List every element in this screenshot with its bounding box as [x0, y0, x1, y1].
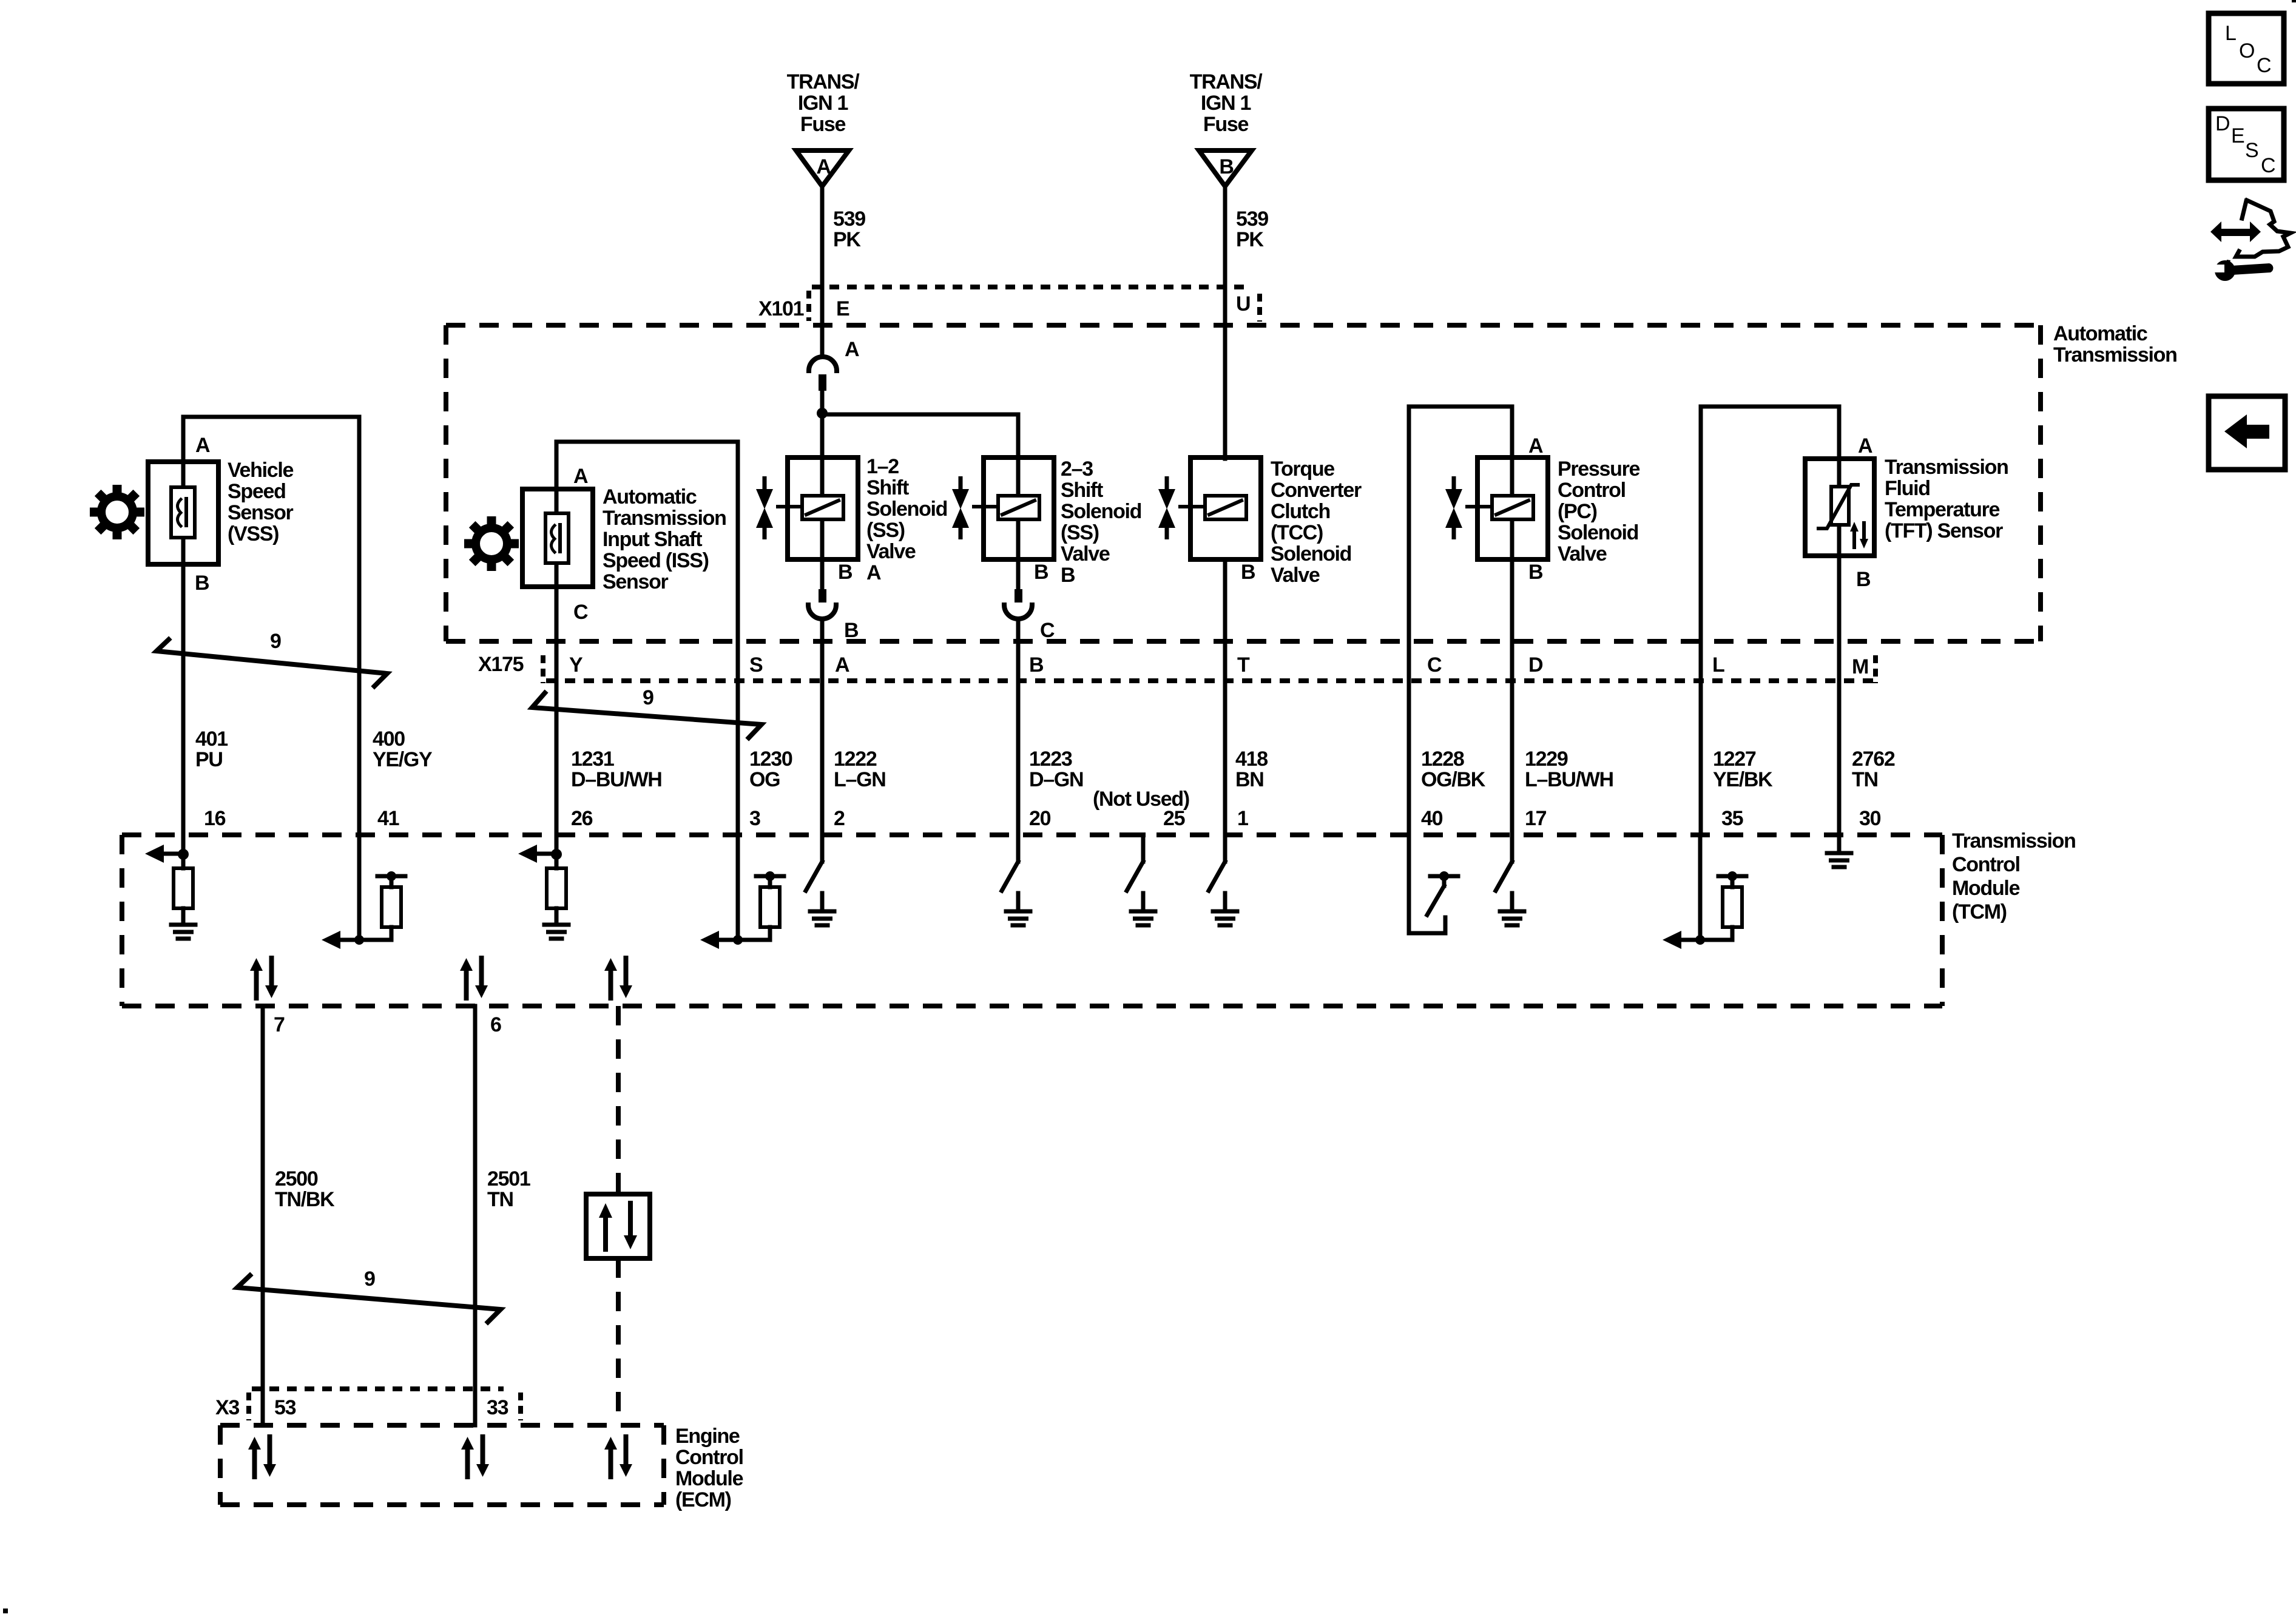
svg-text:D: D	[1528, 653, 1543, 677]
svg-text:Solenoid: Solenoid	[1271, 542, 1351, 565]
wire label 1228 OG/BK	[1421, 748, 1486, 791]
svg-text:Valve: Valve	[1558, 542, 1607, 565]
fuse symbol B (triangle)	[1199, 150, 1252, 186]
TCM pin 20 driver (switch to ground)	[1002, 835, 1030, 925]
svg-text:1227: 1227	[1713, 748, 1756, 771]
svg-text:2501: 2501	[487, 1167, 530, 1190]
TCM pin 25 stub (not used, switch to ground)	[1122, 835, 1155, 925]
svg-text:418: 418	[1235, 748, 1268, 771]
svg-text:A: A	[816, 155, 831, 178]
Engine Control Module (ECM) dashed box	[220, 1425, 664, 1505]
Transmission Fluid Temperature (TFT) Sensor label	[1885, 456, 2008, 542]
svg-text:B: B	[195, 572, 209, 595]
TCM pin 30 ground	[1827, 835, 1851, 867]
TFT sensor body	[1805, 459, 1874, 556]
svg-text:16: 16	[204, 807, 226, 830]
svg-text:TRANS/: TRANS/	[787, 70, 860, 93]
solenoid Torque Converter Clutch (TCC) Solenoid Valve	[1180, 457, 1261, 559]
svg-text:Module: Module	[675, 1467, 743, 1490]
svg-text:S: S	[749, 653, 763, 677]
connector X3 label	[215, 1393, 249, 1420]
svg-text:C: C	[2257, 54, 2271, 77]
svg-text:3: 3	[749, 807, 760, 830]
svg-text:1: 1	[1237, 807, 1248, 830]
harness crossing mark 9 (2500/2501 wires)	[237, 1268, 501, 1322]
svg-text:A: A	[1528, 434, 1543, 457]
TCM pin 35 input circuit (arrow, pull-up resistor)	[1663, 835, 1746, 949]
svg-text:Speed (ISS): Speed (ISS)	[603, 549, 709, 572]
svg-text:PK: PK	[833, 228, 861, 251]
Vehicle Speed Sensor wires and top bracket	[183, 417, 359, 940]
svg-text:2500: 2500	[275, 1167, 318, 1190]
svg-text:X101: X101	[758, 297, 804, 320]
svg-text:Sensor: Sensor	[228, 501, 294, 524]
svg-text:Vehicle: Vehicle	[228, 459, 293, 482]
svg-text:Valve: Valve	[1271, 564, 1320, 587]
wire 539 PK to 1-2 shift solenoid	[820, 390, 825, 589]
svg-text:1–2: 1–2	[866, 455, 899, 478]
svg-text:D–GN: D–GN	[1029, 768, 1083, 791]
ISS sensor body	[522, 489, 593, 587]
TCM bidirectional signal arrows 1	[250, 958, 278, 998]
svg-text:C: C	[2261, 154, 2275, 177]
valve symbol (TCC solenoid)	[1158, 476, 1175, 539]
svg-text:TN: TN	[487, 1188, 513, 1211]
TFT thermistor element	[1818, 485, 1858, 528]
fuse TRANS/IGN 1 Fuse A label	[787, 70, 860, 136]
svg-text:(ECM): (ECM)	[675, 1488, 731, 1511]
svg-text:2–3: 2–3	[1061, 457, 1093, 481]
TCM pin 3 input circuit (arrow, pull-up resistor)	[700, 835, 784, 949]
wire label 1229 L-BU/WH	[1525, 748, 1613, 791]
svg-text:1231: 1231	[571, 748, 614, 771]
TFT bidirectional arrows	[1850, 522, 1868, 549]
svg-text:(TCM): (TCM)	[1952, 900, 2007, 923]
LOC reference box	[2209, 13, 2284, 84]
in-line connector (plug and socket) on 1223	[1004, 589, 1032, 619]
svg-text:1222: 1222	[834, 748, 877, 771]
connector X101 label	[758, 291, 809, 321]
svg-text:L–BU/WH: L–BU/WH	[1525, 768, 1613, 791]
svg-text:Transmission: Transmission	[2053, 343, 2177, 366]
DESC reference box	[2209, 109, 2284, 180]
svg-text:Input Shaft: Input Shaft	[603, 528, 702, 551]
Automatic Transmission Input Shaft Speed (ISS) Sensor label	[603, 485, 726, 593]
wire 1223 down to TCM	[1016, 619, 1021, 835]
svg-text:Solenoid: Solenoid	[866, 498, 947, 521]
svg-text:A: A	[835, 653, 849, 677]
pin M (X175)	[1852, 655, 1876, 683]
2-3 Shift Solenoid (SS) Valve B label	[1061, 457, 1141, 587]
wire label 1231 D-BU/WH	[571, 748, 662, 791]
Pressure Control solenoid wires and top bracket	[1409, 407, 1512, 835]
svg-text:7: 7	[274, 1013, 285, 1036]
svg-text:Automatic: Automatic	[603, 485, 697, 508]
svg-text:U: U	[1236, 292, 1250, 316]
svg-text:C: C	[573, 601, 588, 624]
svg-text:20: 20	[1029, 807, 1051, 830]
svg-text:O: O	[2239, 39, 2254, 62]
connector X3 line	[252, 1386, 504, 1391]
svg-text:(TFT) Sensor: (TFT) Sensor	[1885, 519, 2003, 542]
svg-text:1230: 1230	[749, 748, 792, 771]
TCM pin 26 input circuit (arrow, resistor, ground)	[518, 835, 569, 939]
Automatic Transmission dashed box	[446, 325, 2041, 641]
ECM bidirectional signal arrows 1	[248, 1437, 276, 1477]
svg-text:26: 26	[571, 807, 593, 830]
svg-text:A: A	[866, 561, 881, 584]
svg-text:400: 400	[373, 727, 405, 751]
svg-text:S: S	[2245, 139, 2258, 162]
svg-text:33: 33	[487, 1396, 508, 1419]
svg-text:2: 2	[834, 807, 845, 830]
VSS sensor body	[148, 462, 218, 564]
svg-text:A: A	[845, 338, 859, 361]
valve symbol (1-2 shift solenoid)	[756, 476, 773, 539]
svg-text:IGN 1: IGN 1	[798, 92, 848, 115]
wire label 418 BN	[1235, 748, 1268, 791]
solenoid 2-3 Shift Solenoid (SS) Valve B	[974, 457, 1054, 559]
svg-text:B: B	[844, 619, 859, 642]
svg-text:Solenoid: Solenoid	[1061, 500, 1141, 523]
svg-text:TN/BK: TN/BK	[275, 1188, 335, 1211]
solenoid 1-2 Shift Solenoid (SS) Valve A	[778, 457, 858, 559]
svg-text:A: A	[573, 465, 588, 488]
pin U (X101)	[1236, 292, 1260, 322]
fuse symbol A (triangle)	[796, 150, 849, 186]
svg-text:B: B	[1241, 561, 1255, 584]
svg-text:Speed: Speed	[228, 480, 286, 503]
svg-text:Y: Y	[569, 653, 583, 677]
svg-text:C: C	[1040, 619, 1055, 642]
svg-text:B: B	[1034, 561, 1048, 584]
harness crossing mark 9 (VSS wires)	[157, 630, 387, 686]
gear icon (VSS)	[90, 485, 144, 539]
TCM pin 1 driver (switch to ground)	[1209, 835, 1237, 925]
svg-text:D: D	[2215, 112, 2229, 135]
connector X175 line	[546, 678, 1880, 683]
svg-text:B: B	[1528, 561, 1543, 584]
VSS sensor element	[171, 487, 195, 538]
connector repair icon (arrow into harness with wrench)	[2209, 200, 2291, 281]
page mark (top right)	[2292, 0, 2296, 2]
svg-text:L: L	[2225, 22, 2236, 45]
fuse TRANS/IGN 1 Fuse B label	[1190, 70, 1263, 136]
Pressure Control (PC) Solenoid Valve label	[1558, 457, 1640, 565]
TCM pin 16 input circuit (arrow, resistor, ground)	[145, 835, 195, 939]
TCM bidirectional signal arrows 2	[460, 958, 488, 998]
svg-text:53: 53	[274, 1396, 296, 1419]
svg-text:Transmission: Transmission	[1952, 829, 2076, 852]
svg-text:Solenoid: Solenoid	[1558, 521, 1638, 544]
TCM pin 17 driver (switch to ground)	[1496, 835, 1524, 925]
svg-text:6: 6	[490, 1013, 501, 1036]
ISS sensor element	[545, 513, 569, 563]
wire label 1230 OG	[749, 748, 792, 791]
svg-text:(PC): (PC)	[1558, 500, 1597, 523]
svg-text:Module: Module	[1952, 877, 2020, 900]
svg-text:YE/BK: YE/BK	[1713, 768, 1773, 791]
solenoid Pressure Control (PC) Solenoid Valve	[1467, 457, 1548, 559]
svg-text:Fuse: Fuse	[1203, 113, 1249, 136]
Transmission Control Module (TCM) dashed box	[122, 835, 1942, 1006]
svg-text:IGN 1: IGN 1	[1201, 92, 1251, 115]
svg-text:Temperature: Temperature	[1885, 498, 2000, 521]
svg-text:D–BU/WH: D–BU/WH	[571, 768, 662, 791]
wire label 1222 L-GN	[834, 748, 885, 791]
svg-text:9: 9	[270, 630, 281, 653]
in-line connector (socket and plug) on 539 PK	[809, 357, 837, 391]
TCM pin 41 input circuit (arrow, pull-up resistor)	[322, 835, 405, 949]
svg-text:Transmission: Transmission	[1885, 456, 2008, 479]
wire label 400 YE/GY	[373, 727, 433, 771]
svg-text:539: 539	[833, 208, 865, 231]
svg-text:TRANS/: TRANS/	[1190, 70, 1263, 93]
svg-text:B: B	[1061, 564, 1075, 587]
svg-text:(VSS): (VSS)	[228, 522, 279, 545]
wire branch 539 PK to 2-3 shift solenoid	[822, 414, 1018, 589]
valve symbol (2-3 shift solenoid)	[952, 476, 969, 539]
svg-text:Clutch: Clutch	[1271, 500, 1330, 523]
svg-text:2762: 2762	[1852, 748, 1895, 771]
svg-text:YE/GY: YE/GY	[373, 748, 433, 771]
svg-text:Fluid: Fluid	[1885, 477, 1930, 500]
svg-text:(SS): (SS)	[1061, 521, 1099, 544]
gear icon (ISS)	[464, 516, 519, 571]
svg-text:17: 17	[1525, 807, 1547, 830]
svg-text:Transmission: Transmission	[603, 507, 726, 530]
Automatic Transmission label	[2053, 322, 2177, 366]
svg-text:L: L	[1712, 653, 1724, 677]
wire label 539 PK (A)	[833, 208, 865, 251]
svg-text:Engine: Engine	[675, 1425, 740, 1448]
svg-text:Automatic: Automatic	[2053, 322, 2147, 345]
connector X101 line	[812, 285, 1251, 289]
page mark dot (bottom left)	[3, 1609, 8, 1613]
svg-text:C: C	[1427, 653, 1442, 677]
svg-text:B: B	[1856, 568, 1871, 591]
svg-text:Control: Control	[1558, 479, 1626, 502]
junction (splice) on 539 PK	[817, 408, 828, 419]
wire 1222 down to TCM	[820, 619, 825, 835]
harness crossing mark 9 (ISS wires)	[532, 686, 761, 738]
svg-text:PU: PU	[195, 748, 223, 771]
svg-text:X175: X175	[478, 653, 524, 676]
svg-text:OG/BK: OG/BK	[1421, 768, 1486, 791]
connector X175 label	[478, 653, 543, 683]
svg-text:1223: 1223	[1029, 748, 1072, 771]
back navigation arrow box	[2209, 396, 2285, 470]
1-2 Shift Solenoid (SS) Valve A label	[866, 455, 947, 584]
bidirectional link symbol box	[586, 1194, 650, 1258]
svg-text:1228: 1228	[1421, 748, 1464, 771]
svg-text:Control: Control	[675, 1446, 743, 1469]
wire 2501 TN (TCM pin 6 to ECM)	[473, 1006, 478, 1425]
Vehicle Speed Sensor (VSS) label	[228, 459, 294, 545]
svg-text:A: A	[1858, 434, 1872, 457]
Engine Control Module (ECM) label	[675, 1425, 743, 1511]
wire label 1227 YE/BK	[1713, 748, 1773, 791]
svg-text:B: B	[1029, 653, 1044, 677]
svg-text:Control: Control	[1952, 853, 2020, 876]
wire 2500 TN/BK (TCM pin 7 to ECM)	[261, 1006, 265, 1425]
svg-text:40: 40	[1421, 807, 1443, 830]
wire label 2501 TN	[487, 1167, 530, 1211]
svg-text:M: M	[1852, 655, 1868, 678]
ECM bidirectional signal arrows 2	[461, 1437, 489, 1477]
svg-text:Shift: Shift	[1061, 479, 1103, 502]
svg-text:A: A	[195, 434, 210, 457]
svg-text:E: E	[2231, 124, 2244, 147]
svg-text:L–GN: L–GN	[834, 768, 885, 791]
svg-text:Shift: Shift	[866, 476, 909, 499]
svg-text:Valve: Valve	[866, 540, 916, 563]
ECM bidirectional signal arrows 3	[604, 1437, 632, 1477]
svg-text:Fuse: Fuse	[800, 113, 846, 136]
wire label 401 PU	[195, 727, 228, 771]
wire label 1223 D-GN	[1029, 748, 1083, 791]
svg-text:TN: TN	[1852, 768, 1878, 791]
svg-text:1229: 1229	[1525, 748, 1568, 771]
ISS sensor wires and top bracket	[556, 442, 738, 940]
TCM bidirectional signal arrows 3	[604, 958, 632, 998]
svg-text:OG: OG	[749, 768, 780, 791]
wire label 539 PK (B)	[1236, 208, 1268, 251]
svg-text:Torque: Torque	[1271, 457, 1334, 481]
svg-text:30: 30	[1859, 807, 1881, 830]
svg-text:Pressure: Pressure	[1558, 457, 1640, 481]
svg-text:PK: PK	[1236, 228, 1264, 251]
Torque Converter Clutch (TCC) Solenoid Valve label	[1271, 457, 1362, 587]
pin 33 (ECM)	[487, 1393, 521, 1420]
svg-text:539: 539	[1236, 208, 1268, 231]
TCM pin 2 driver (switch to ground)	[806, 835, 834, 925]
TFT sensor wires and top bracket	[1701, 407, 1839, 835]
svg-text:Converter: Converter	[1271, 479, 1362, 502]
svg-text:T: T	[1237, 653, 1250, 677]
svg-text:(SS): (SS)	[866, 519, 905, 542]
in-line connector (plug and socket) on 1222	[808, 589, 836, 619]
svg-text:35: 35	[1721, 807, 1743, 830]
svg-text:B: B	[838, 561, 853, 584]
svg-text:Valve: Valve	[1061, 542, 1110, 565]
svg-text:B: B	[1219, 155, 1234, 178]
svg-text:E: E	[836, 297, 849, 320]
valve symbol (PC solenoid)	[1445, 476, 1462, 539]
svg-text:25: 25	[1163, 807, 1185, 830]
Transmission Control Module (TCM) label	[1952, 829, 2076, 923]
wire label 2500 TN/BK	[275, 1167, 335, 1211]
wire 539 PK from fuse B down to TCC solenoid	[1223, 189, 1227, 459]
TCM pin 40 driver (switch contact)	[1409, 835, 1458, 933]
svg-text:X3: X3	[215, 1396, 239, 1419]
svg-text:Sensor: Sensor	[603, 570, 669, 593]
svg-text:(TCC): (TCC)	[1271, 521, 1323, 544]
svg-text:9: 9	[643, 686, 653, 709]
svg-text:BN: BN	[1235, 768, 1264, 791]
dashed data link wire (TCM to ECM)	[616, 1006, 621, 1425]
wire 539 PK from fuse A to connector X101	[820, 189, 825, 357]
svg-text:401: 401	[195, 727, 228, 751]
wire 418 down to TCM	[1223, 559, 1227, 835]
svg-text:41: 41	[377, 807, 399, 830]
wire label 2762 TN	[1852, 748, 1895, 791]
svg-text:9: 9	[364, 1268, 375, 1291]
